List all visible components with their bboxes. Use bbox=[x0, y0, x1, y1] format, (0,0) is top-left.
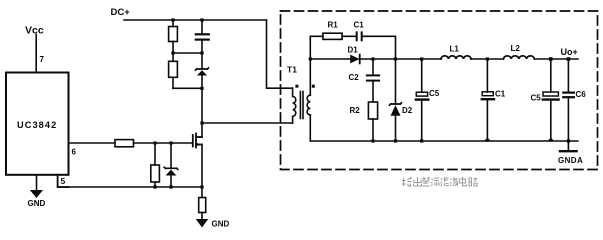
C2 branch wire top bbox=[372, 59, 374, 75]
diode D1 bbox=[350, 55, 360, 64]
gate zener diode bbox=[164, 167, 178, 169]
wire R branch top bbox=[154, 143, 156, 165]
ground arrow (source) bbox=[196, 219, 208, 228]
DC+ rail bbox=[124, 19, 267, 21]
node: D1 row / C2 branch bbox=[371, 57, 374, 60]
node: output row / C6 branch bbox=[567, 57, 571, 61]
transformer secondary winding bbox=[307, 95, 310, 115]
svg-text:Uo+: Uo+ bbox=[561, 47, 578, 57]
wire D1 to L1 bbox=[360, 58, 441, 60]
capacitor C1 bbox=[357, 32, 362, 40]
wire pin6 to gate resistor bbox=[69, 142, 116, 144]
capacitor C2 bbox=[367, 75, 379, 80]
char 电 bbox=[460, 177, 467, 186]
D2 branch wire top bbox=[395, 59, 397, 104]
svg-text:L2: L2 bbox=[511, 44, 521, 53]
svg-text:DC+: DC+ bbox=[111, 7, 131, 18]
wire R branch bottom bbox=[154, 182, 156, 187]
svg-text:T1: T1 bbox=[287, 65, 297, 75]
node: output row / C5out branch bbox=[549, 57, 553, 61]
snubber row wire left bbox=[310, 35, 323, 37]
wire R2 to rail bbox=[372, 119, 374, 141]
node: L1 row / C4 branch bbox=[486, 57, 489, 60]
wire C6 to rail bbox=[567, 97, 569, 141]
capacitor C5 (output electrolytic) bbox=[543, 92, 558, 96]
svg-text:5: 5 bbox=[61, 176, 66, 186]
svg-text:6: 6 bbox=[72, 148, 77, 157]
link wire bottom bbox=[173, 87, 202, 89]
pin 5 notch bbox=[58, 175, 69, 187]
node: drain junction bbox=[200, 121, 203, 124]
MOSFET source wire bbox=[201, 145, 203, 188]
gate pulldown resistor bbox=[151, 165, 160, 182]
wire R1 to C1 bbox=[342, 35, 356, 37]
MOSFET source arrow bbox=[197, 143, 201, 146]
node: rail / C6 bbox=[567, 139, 570, 142]
node: pin5 wire / MOSFET source bbox=[200, 185, 203, 188]
node: Ra-Rb junction bbox=[171, 51, 174, 54]
C4 branch wire top bbox=[486, 59, 488, 92]
char 滤 bbox=[441, 178, 450, 186]
node: pin5 wire / R branch bbox=[153, 185, 156, 188]
wire C5out to rail bbox=[550, 101, 552, 141]
svg-text:C1: C1 bbox=[354, 21, 365, 30]
node: gate wire / zener branch bbox=[169, 141, 172, 144]
node: rail / clamp cap bbox=[200, 18, 203, 21]
svg-text:GNDA: GNDA bbox=[558, 156, 583, 165]
char 路 bbox=[469, 178, 477, 186]
secondary bottom drop bbox=[309, 115, 311, 141]
dashed box (output section) bbox=[281, 11, 598, 170]
svg-text:7: 7 bbox=[40, 55, 45, 64]
wire C2 to R2 bbox=[372, 81, 374, 102]
node: rail / resistor chain bbox=[171, 18, 174, 21]
node: rail / C5out bbox=[547, 138, 554, 141]
transformer primary winding bbox=[293, 88, 296, 123]
svg-text:GND: GND bbox=[212, 220, 230, 229]
clamp capacitor bbox=[201, 20, 203, 34]
char 整 bbox=[422, 177, 430, 186]
C5 branch (first filter cap) wire top bbox=[421, 59, 423, 92]
svg-text:R1: R1 bbox=[328, 21, 339, 30]
inductor L1 bbox=[441, 56, 471, 59]
clamp diode (zener) bbox=[201, 53, 203, 69]
diode D2 (zener) bbox=[390, 103, 402, 105]
caption: 输出整流滤波电路 (drawn strokes, gray) bbox=[402, 177, 477, 186]
wire C5 to rail bbox=[421, 101, 423, 141]
inductor L2 bbox=[504, 56, 535, 59]
node: rail / C5 bbox=[420, 139, 423, 142]
node: link / cap branch bbox=[200, 51, 203, 54]
ground bar (GNDA) bbox=[560, 150, 577, 152]
wire rail drop to primary top bbox=[267, 20, 293, 88]
node: rail / C4 bbox=[484, 138, 491, 141]
wire gate resistor to MOSFET gate bbox=[134, 142, 193, 144]
capacitor C5 (electrolytic, first) bbox=[416, 92, 427, 96]
svg-text:C2: C2 bbox=[349, 73, 360, 82]
node: rail / D2 bbox=[394, 139, 397, 142]
node: rail / C2R2 bbox=[371, 139, 374, 142]
secondary top riser bbox=[309, 36, 311, 95]
C5out branch wire top bbox=[550, 59, 552, 92]
sense resistor below source bbox=[201, 187, 203, 198]
wire zener branch bottom bbox=[170, 176, 172, 188]
capacitor C1 (filter electrolytic) bbox=[482, 92, 493, 96]
clamp resistor Ra bbox=[172, 20, 174, 27]
node: clamp bottom bbox=[200, 87, 203, 90]
node: D1 row / D2 branch bbox=[394, 57, 397, 60]
svg-text:C5: C5 bbox=[429, 89, 440, 98]
IC U1 UC3842 box bbox=[6, 73, 69, 175]
node: pin5 wire / zener branch bbox=[169, 185, 172, 188]
D1 row: node at secondary top bbox=[309, 57, 312, 60]
MOSFET Q1 bbox=[193, 134, 202, 148]
wire pin5 row bbox=[58, 186, 202, 188]
wire D2 to rail bbox=[395, 116, 397, 141]
char 流 bbox=[431, 178, 440, 186]
transformer core bbox=[299, 92, 301, 119]
resistor R2 bbox=[368, 102, 377, 119]
node: D1 row / C5 branch bbox=[420, 57, 423, 60]
svg-text:GND: GND bbox=[28, 199, 46, 208]
resistor R1 bbox=[323, 33, 342, 39]
wire zener branch top bbox=[170, 143, 172, 168]
capacitor C6 bbox=[563, 93, 574, 98]
wire drain to transformer primary bottom bbox=[202, 122, 293, 124]
ground arrow (IC GND) bbox=[30, 190, 43, 198]
wire C1 to right loop bbox=[362, 36, 396, 59]
gate resistor bbox=[115, 140, 134, 147]
svg-text:D2: D2 bbox=[402, 106, 413, 115]
primary polarity dot bbox=[295, 85, 298, 88]
char 输 bbox=[402, 178, 412, 187]
svg-text:C1: C1 bbox=[495, 90, 506, 99]
MOSFET drain wire bbox=[201, 123, 203, 137]
svg-text:L1: L1 bbox=[450, 45, 460, 54]
svg-text:UC3842: UC3842 bbox=[17, 120, 57, 130]
wire L1 to L2 bbox=[471, 58, 504, 60]
svg-text:R2: R2 bbox=[350, 106, 361, 115]
clamp resistor Rb bbox=[169, 61, 178, 77]
svg-text:D1: D1 bbox=[348, 46, 359, 55]
svg-text:Vcc: Vcc bbox=[25, 25, 44, 37]
ground stub (GNDA) bbox=[567, 141, 569, 151]
C6 branch wire top bbox=[567, 59, 569, 92]
char 波 bbox=[450, 178, 458, 187]
wire node to D1 bbox=[310, 58, 350, 60]
bottom rail of output section bbox=[310, 140, 578, 142]
svg-text:C5: C5 bbox=[531, 94, 542, 103]
secondary polarity dot bbox=[312, 85, 315, 88]
node: gate wire / R branch bbox=[153, 141, 156, 144]
wire L2 to output bbox=[534, 58, 578, 60]
wire Vcc to pin7 bbox=[35, 35, 37, 73]
char 出 bbox=[414, 177, 422, 186]
link wire to cap branch bbox=[173, 52, 202, 54]
wire C4 to rail bbox=[486, 100, 488, 141]
svg-text:C6: C6 bbox=[576, 90, 587, 99]
ground stub under IC bbox=[36, 175, 38, 191]
